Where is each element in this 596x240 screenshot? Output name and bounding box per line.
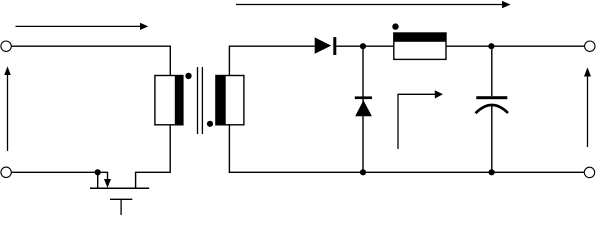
node capacitor bottom junction — [489, 169, 495, 175]
inductor L1 dot — [392, 23, 398, 29]
input current arrow — [16, 23, 149, 30]
wire freewheel branch — [362, 46, 364, 172]
transformer T1 primary dot — [185, 73, 191, 79]
input terminal + — [1, 41, 11, 51]
output terminal + — [585, 41, 595, 51]
node D2 anode junction — [360, 169, 366, 175]
wire secondary bottom rail — [229, 124, 584, 172]
wire input- rail — [11, 171, 98, 173]
node capacitor top junction — [488, 43, 494, 49]
inductor L1 — [394, 33, 447, 59]
wire inductor to output+ — [446, 45, 585, 47]
input voltage arrow — [4, 66, 11, 151]
wire input+ rail to primary top — [11, 46, 170, 75]
transformer T1 primary winding — [155, 75, 184, 125]
wire primary bottom to MOSFET drain — [136, 125, 171, 188]
node source junction — [95, 169, 101, 175]
transistor Q1 (MOSFET) — [90, 172, 149, 215]
diode D2 (freewheeling) — [355, 96, 372, 116]
wire secondary top to diode D1 — [229, 46, 315, 75]
diode D1 — [315, 37, 337, 55]
transformer T1 secondary dot — [207, 121, 213, 127]
top current arrow — [236, 1, 511, 8]
output terminal - — [584, 167, 594, 177]
capacitor C1 — [476, 46, 509, 172]
transformer T1 secondary winding — [216, 75, 244, 125]
output voltage arrow — [584, 67, 591, 147]
input terminal - — [1, 167, 11, 177]
inductor current arrow — [398, 90, 443, 149]
transformer T1 core — [198, 67, 203, 134]
wire D1 cathode to inductor — [336, 45, 394, 47]
node D1 cathode junction — [360, 43, 366, 49]
